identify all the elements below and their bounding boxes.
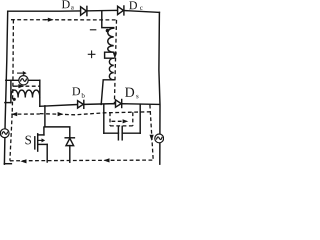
source: output circle on right wire (155, 134, 164, 143)
diode Db (78, 100, 84, 108)
label Dc_c (140, 7, 143, 10)
wire: dashed bottom horizontal D6 (10, 159, 153, 162)
wire: bottom-left stub (4, 163, 11, 165)
label Ds_D (125, 88, 134, 97)
wire: dashed snubber box right (132, 112, 134, 126)
wire: dashed transformer horizontal D4 (13, 85, 40, 87)
wire: dashed snubber box left (109, 112, 111, 126)
wire: left vertical (4, 11, 7, 164)
wire: dashed right vertical D7 (150, 105, 153, 160)
wire: right vertical (159, 12, 160, 164)
wire: secondary jog (105, 52, 114, 58)
arrow: right loop down (150, 135, 154, 141)
label minus (90, 29, 95, 31)
label Da_D (62, 0, 70, 8)
source/sensor circle on input branch (19, 76, 28, 85)
wire: dashed left vertical D2 (10, 20, 14, 161)
wire: dashed top horizontal D1 (11, 19, 117, 21)
wire: secondary top lead (102, 11, 114, 28)
wire: primary left side vertical (10, 80, 12, 102)
source: AC source circle on left wire (0, 129, 9, 138)
node: secondary polarity dot (106, 29, 109, 32)
dashed current loops (10, 20, 153, 161)
winding: transformer secondary lower (109, 58, 113, 80)
diode: antiparallel across switch (65, 138, 74, 162)
wire: branch to parallel diode (45, 127, 70, 138)
arrow: middle loop right (58, 112, 64, 116)
arrow: top loop right (45, 19, 49, 21)
label plus (88, 51, 95, 58)
arrow: input current (18, 71, 27, 75)
wire: cap left down lead (103, 105, 105, 134)
wire: dashed secondary-side vertical D3 (114, 20, 116, 104)
capacitor C plates (117, 126, 119, 139)
arrow: transformer loop right (16, 85, 19, 87)
capacitor branch (104, 104, 140, 140)
wire: cap left horizontal (104, 132, 119, 134)
wire: dashed middle horizontal D5 (11, 113, 40, 115)
wire: top horizontal (8, 10, 160, 12)
arrow: bottom loop left 1 (20, 159, 26, 163)
label Db_D (72, 87, 80, 95)
wire: input branch horizontal (6, 79, 40, 81)
transistor S (MOSFET) (35, 134, 47, 162)
label Dc_D (129, 1, 137, 9)
label Ds_s (136, 95, 138, 98)
node: primary polarity dot (13, 98, 16, 101)
wire: secondary bottom lead (101, 80, 114, 105)
winding: transformer secondary upper (108, 28, 114, 52)
arrow: middle loop left (11, 112, 17, 116)
arrow: secondary loop down (113, 53, 117, 59)
diode Ds (116, 100, 122, 108)
label Da_a (71, 6, 74, 9)
arrow: snubber inner right (123, 119, 129, 123)
diode Da (81, 6, 87, 15)
loop arrows (filled) (11, 18, 153, 164)
wire: cap right horizontal (122, 132, 140, 134)
label S_S (25, 136, 31, 145)
wire: dashed snubber box bottom (110, 125, 133, 127)
wire: MOSFET drain vertical (44, 106, 45, 135)
winding: transformer primary (11, 90, 40, 97)
wire: dashed snubber inner arrow line (112, 120, 124, 122)
label Db_b (81, 93, 84, 98)
wire: primary stub to left wire (5, 102, 11, 104)
arrow: bottom loop left 2 (103, 158, 109, 162)
wire: vertical to node X (39, 80, 41, 106)
diode Dc (118, 6, 124, 15)
wire: cap right up lead (139, 104, 141, 133)
wire: main middle horizontal (40, 104, 160, 107)
